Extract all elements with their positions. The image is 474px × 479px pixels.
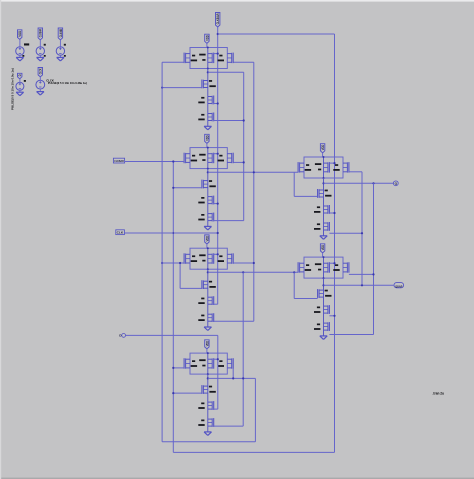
VDD flag of gate U6 — [320, 244, 324, 253]
node Qnet at R2 gate — [372, 273, 374, 275]
wire net3 vertical — [242, 272, 244, 426]
wire cell4 right gate jog — [232, 368, 234, 379]
ground of V2 — [37, 56, 44, 58]
VDD rail wires (rect) — [190, 248, 227, 269]
node channel top — [207, 352, 209, 354]
transistor M8 (PMOS middle) — [208, 153, 212, 155]
VDD rail wires (rect) — [190, 353, 227, 374]
wire NMOS chain — [207, 269, 209, 327]
node channel top — [323, 156, 325, 158]
transistor M30 (PMOS right) — [343, 162, 347, 164]
ground of V1 — [16, 56, 23, 58]
net flag CLK on V3 — [58, 28, 62, 40]
node CLK at trunk — [217, 232, 219, 234]
node net3 at cell4 out — [242, 377, 244, 379]
VDD flag of gate U1 — [205, 34, 209, 43]
wire D vertical — [217, 335, 219, 409]
node cell1 N2 gate — [217, 102, 219, 104]
svg-text:VDD: VDD — [205, 235, 209, 241]
wire R1 mid gate stub — [329, 162, 334, 164]
transistor M35 (NMOS bottom) — [324, 322, 328, 324]
voltage source V2 (clock source) — [36, 47, 44, 55]
ground of gate U5 — [320, 235, 327, 237]
wire cell1 N2 gate stub — [214, 103, 218, 105]
transistor M27 (NMOS top) — [319, 189, 323, 191]
node CLKBAR trunk — [172, 160, 174, 162]
window bottom edge shadow — [0, 478, 474, 479]
input label CLKBAR — [113, 158, 124, 163]
node cell1 output — [207, 71, 209, 73]
node cell2 output — [207, 171, 209, 173]
transistor M29 (NMOS bottom) — [324, 222, 328, 224]
node CLKIN branch — [217, 33, 219, 35]
svg-text:CLKBAR: CLKBAR — [216, 13, 220, 24]
node cell2 mid gate — [217, 153, 219, 155]
wire V2 flag to plus — [39, 40, 41, 47]
node CLK2 tap — [253, 171, 255, 173]
svg-text:VDD: VDD — [205, 35, 209, 41]
wire QBARnet vertical — [361, 172, 363, 285]
ground of gate U3 — [204, 326, 211, 328]
node cell3 mid gate — [217, 253, 219, 255]
ground of gate U6 — [320, 335, 327, 337]
node channel bottom — [207, 373, 209, 375]
wire Qnet to R2 right gate — [349, 273, 374, 275]
wire cell3 output right — [208, 271, 298, 273]
transistor M5 (NMOS bottom) — [208, 113, 212, 115]
wire middle channel — [207, 248, 209, 269]
svg-text:CLKBAR: CLKBAR — [39, 29, 43, 38]
wire flag to VDD rail — [322, 153, 324, 157]
svg-text:CLK: CLK — [117, 231, 124, 235]
svg-text:PULSE(0 5 0 10n 10n 0.48u 1u): PULSE(0 5 0 10n 10n 0.48u 1u) — [48, 81, 87, 85]
transistor M2 (PMOS middle) — [208, 53, 212, 55]
net flag VDD on V1 — [18, 30, 22, 40]
wire Q output right — [324, 182, 394, 184]
ground of gate U4 — [204, 431, 211, 433]
node cell4 N1 gate — [172, 392, 174, 394]
node channel top — [207, 147, 209, 149]
wire cell2 N1 gate stub — [173, 187, 202, 189]
transistor M19 (PMOS left) — [186, 358, 190, 360]
wire flag to VDD rail — [206, 43, 208, 47]
VDD rail wires (rect) — [190, 148, 227, 169]
wire V2 minus to ground — [39, 55, 41, 57]
wire feedback left vertical — [161, 62, 163, 442]
node Qnet tap — [372, 182, 374, 184]
node cell4 left gate — [172, 367, 174, 369]
wire R2 input bracket — [293, 272, 295, 298]
wire middle channel — [207, 353, 209, 374]
wire cell2 right gate stub — [233, 161, 244, 163]
node cell2 N1 gate — [172, 187, 174, 189]
node channel bottom — [323, 177, 325, 179]
VDD flag of gate U2 — [205, 134, 209, 143]
wire net3 to cell4 N3 gate — [214, 425, 244, 427]
node cell3 bracket — [179, 262, 181, 264]
VDD flag of gate U4 — [205, 340, 209, 349]
wire cell1 mid gate stub — [214, 53, 218, 55]
node CLK crossing — [172, 232, 174, 234]
transistor M12 (PMOS right) — [227, 153, 231, 155]
transistor M33 (NMOS top) — [319, 289, 323, 291]
node net3 corner — [242, 271, 244, 273]
wire Qnet to R2 N3 gate — [329, 334, 373, 336]
transistor M18 (PMOS right) — [227, 253, 231, 255]
wire flag to VDD rail — [322, 253, 324, 257]
transistor M11 (NMOS bottom) — [208, 213, 212, 215]
output port Q — [393, 181, 398, 186]
wire V5 flag to plus — [39, 77, 41, 80]
wire cell3 right gate stub — [233, 262, 254, 264]
transistor M25 (PMOS left) — [300, 162, 304, 164]
wire cell3 N1 gate stub — [180, 287, 202, 289]
wire clock bottom return — [173, 451, 334, 453]
wire NMOS chain — [323, 278, 325, 336]
node QBARnet at R1 N3 — [361, 232, 363, 234]
transistor M22 (NMOS middle) — [208, 401, 212, 403]
voltage source V1 (VDD supply) — [16, 47, 24, 55]
svg-text:VDD: VDD — [205, 340, 209, 346]
wire feedback bottom — [162, 441, 255, 443]
wire R2 mid gate stub — [329, 262, 334, 264]
svg-text:VDD: VDD — [321, 244, 325, 250]
node cell2 N2 gate — [217, 203, 219, 205]
node net3 at slave input — [293, 271, 295, 273]
label V3 — [64, 44, 66, 46]
wire middle channel — [323, 157, 325, 178]
wire R1 input bracket — [293, 172, 295, 196]
label V2 — [44, 44, 46, 46]
node cell4 output — [207, 377, 209, 379]
wire cell4 mid gate stub — [214, 358, 218, 360]
node R1 N2 gate — [333, 212, 335, 214]
wire QBAR output right — [324, 284, 394, 286]
transistor M9 (NMOS top) — [203, 180, 207, 182]
node cell1 mid gate — [217, 53, 219, 55]
svg-text:CLKBAR: CLKBAR — [114, 159, 124, 163]
wire flag to VDD rail — [206, 244, 208, 248]
ground of V5 — [37, 91, 44, 93]
wire R1 right gate to QBARnet — [349, 171, 362, 173]
node cell4 mid gate — [217, 358, 219, 360]
wire NMOS chain — [207, 169, 209, 227]
transistor M6 (PMOS right) — [227, 53, 231, 55]
ground of gate U1 — [204, 125, 211, 127]
svg-text:VDD: VDD — [18, 30, 22, 36]
transistor M32 (PMOS middle) — [324, 262, 328, 264]
wire V4 flag to plus — [19, 79, 21, 83]
voltage source V4 (data source) — [16, 82, 24, 90]
wire cell2 output to latch — [208, 171, 298, 173]
node cell4 right gate — [232, 377, 234, 379]
wire flag to VDD rail — [206, 349, 208, 353]
wire NMOS chain — [207, 69, 209, 127]
wire Qnet vertical — [373, 183, 375, 334]
wire feedback down — [254, 378, 256, 441]
transistor M21 (NMOS top) — [203, 385, 207, 387]
node CLK2 at cell3 right gate — [253, 262, 255, 264]
wire cell4 output right — [208, 377, 256, 379]
transistor M17 (NMOS bottom) — [208, 313, 212, 315]
wire CLKIN trunk vertical — [217, 27, 219, 304]
svg-text:.tran 2u: .tran 2u — [433, 392, 445, 396]
svg-text:QBAR: QBAR — [395, 284, 403, 288]
net flag CLKBAR on V2 — [38, 28, 42, 40]
wire V5 minus to ground — [39, 89, 41, 92]
label V1 value VDD — [24, 43, 29, 45]
wire flag to VDD rail — [206, 143, 208, 147]
node channel bottom — [207, 268, 209, 270]
wire clock right vertical — [334, 34, 336, 452]
wire cell4 left gate from CLKBAR — [173, 367, 184, 369]
transistor M26 (PMOS middle) — [324, 162, 328, 164]
net flag CLKGEN on V5 — [38, 68, 42, 77]
output port QBAR — [394, 283, 404, 288]
transistor M23 (NMOS bottom) — [208, 418, 212, 420]
wire cell1 N1 gate stub — [162, 87, 202, 89]
node net1 at cell2 right gate — [243, 161, 245, 163]
wire V1 minus to ground — [19, 55, 21, 57]
node R2 mid gate — [333, 262, 335, 264]
wire cell3 input bracket down — [179, 263, 181, 288]
node cell3 input — [161, 262, 163, 264]
wire clock left vertical — [172, 162, 174, 453]
node QBARnet join — [361, 284, 363, 286]
wire R1 N2 gate stub — [329, 212, 334, 214]
transistor M4 (NMOS middle) — [208, 96, 212, 98]
transistor M13 (PMOS left) — [186, 253, 190, 255]
svg-text:VDD: VDD — [321, 144, 325, 150]
wire NMOS chain — [323, 178, 325, 236]
wire clock top branch right — [218, 33, 335, 35]
transistor M7 (PMOS left) — [186, 153, 190, 155]
wire middle channel — [323, 257, 325, 278]
wire cell2 mid gate stub — [214, 153, 218, 155]
ground of V3 — [57, 56, 64, 58]
transistor M24 (PMOS right) — [227, 358, 231, 360]
node Q output — [322, 182, 324, 184]
wire CLK2 to cell3 N3 gate — [214, 320, 254, 322]
transistor M3 (NMOS top) — [203, 80, 207, 82]
wire V4 minus to ground — [19, 90, 21, 92]
svg-text:CLCK: CLCK — [39, 68, 43, 74]
svg-text:VDD: VDD — [205, 135, 209, 141]
input label CLK — [116, 230, 125, 235]
wire V3 flag to plus — [59, 40, 61, 47]
transistor M15 (NMOS top) — [203, 280, 207, 282]
wire R2 N1 gate stub — [294, 298, 317, 300]
transistor M20 (PMOS middle) — [208, 358, 212, 360]
ground of V4 — [16, 91, 23, 93]
wire cell4 N2 gate stub — [214, 408, 218, 410]
wire cell3 N2 gate stub — [214, 303, 218, 305]
wire cell1 N3 gate stub — [214, 120, 244, 122]
transistor M31 (PMOS left) — [300, 262, 304, 264]
wire net1 to cell2 N3 gate — [214, 220, 244, 222]
node cell1 N1 gate — [161, 87, 163, 89]
wire V1 flag to plus — [19, 39, 21, 46]
net flag D on V4 — [18, 73, 22, 79]
wire R1 N3 gate stub — [329, 232, 362, 234]
transistor M36 (PMOS right) — [343, 262, 347, 264]
node R2 N2 gate — [333, 315, 335, 317]
window top edge highlight — [0, 0, 474, 2]
transistor M14 (PMOS middle) — [208, 253, 212, 255]
wire cell3 mid gate stub — [214, 253, 218, 255]
wire cell2 N2 gate stub — [214, 203, 218, 205]
node channel bottom — [207, 68, 209, 70]
svg-text:PULSE(0 5 0 10n 10n 0.5u 1u): PULSE(0 5 0 10n 10n 0.5u 1u) — [11, 68, 15, 110]
node channel top — [323, 256, 325, 258]
VDD flag of gate U3 — [205, 235, 209, 244]
node channel bottom — [323, 277, 325, 279]
wire cell1 output right — [208, 71, 244, 73]
transistor M34 (NMOS middle) — [324, 305, 328, 307]
wire R2 N2 gate stub — [329, 315, 334, 317]
label V4 — [24, 80, 26, 82]
transistor M16 (NMOS middle) — [208, 296, 212, 298]
node cell3 output — [207, 271, 209, 273]
voltage source V3 (clock bar source) — [56, 47, 64, 55]
node channel bottom — [207, 168, 209, 170]
transistor M10 (NMOS middle) — [208, 196, 212, 198]
transistor M28 (NMOS middle) — [324, 205, 328, 207]
VDD rail wires (rect) — [304, 257, 343, 278]
wire cell3 input from feedback — [162, 262, 184, 264]
transistor M1 (PMOS left) — [186, 53, 190, 55]
node channel top — [207, 47, 209, 49]
ground of gate U2 — [204, 225, 211, 227]
node R1 mid gate — [333, 162, 335, 164]
wire R1 N1 gate stub — [294, 195, 317, 197]
wire CLKBAR to cell2 — [125, 161, 185, 163]
node QBAR output — [322, 284, 324, 286]
wire middle channel — [207, 148, 209, 169]
VDD rail wires (rect) — [190, 48, 227, 69]
wire CLK2 vertical — [253, 62, 255, 321]
input port D — [122, 334, 126, 338]
node net1 at cell1 N3 — [243, 119, 245, 121]
node channel top — [207, 247, 209, 249]
VDD flag of gate U5 — [320, 144, 324, 153]
voltage source V5 (clock generator) — [36, 80, 45, 89]
wire middle channel — [207, 48, 209, 69]
wire cell1 right gate to CLK2 — [233, 61, 254, 63]
svg-text:CLKINB: CLKINB — [59, 29, 63, 38]
wire CLK to trunk — [124, 232, 217, 234]
wire cell4 N1 gate stub — [173, 392, 202, 394]
net flag CLKIN (top) — [216, 13, 220, 28]
VDD rail wires (rect) — [304, 157, 343, 178]
wire net1 vertical — [243, 72, 245, 220]
wire D input right — [126, 334, 218, 336]
wire V3 minus to ground — [59, 55, 61, 57]
window left edge highlight — [0, 0, 1, 479]
wire cell1 left gate input — [162, 61, 184, 63]
wire NMOS chain — [207, 374, 209, 432]
